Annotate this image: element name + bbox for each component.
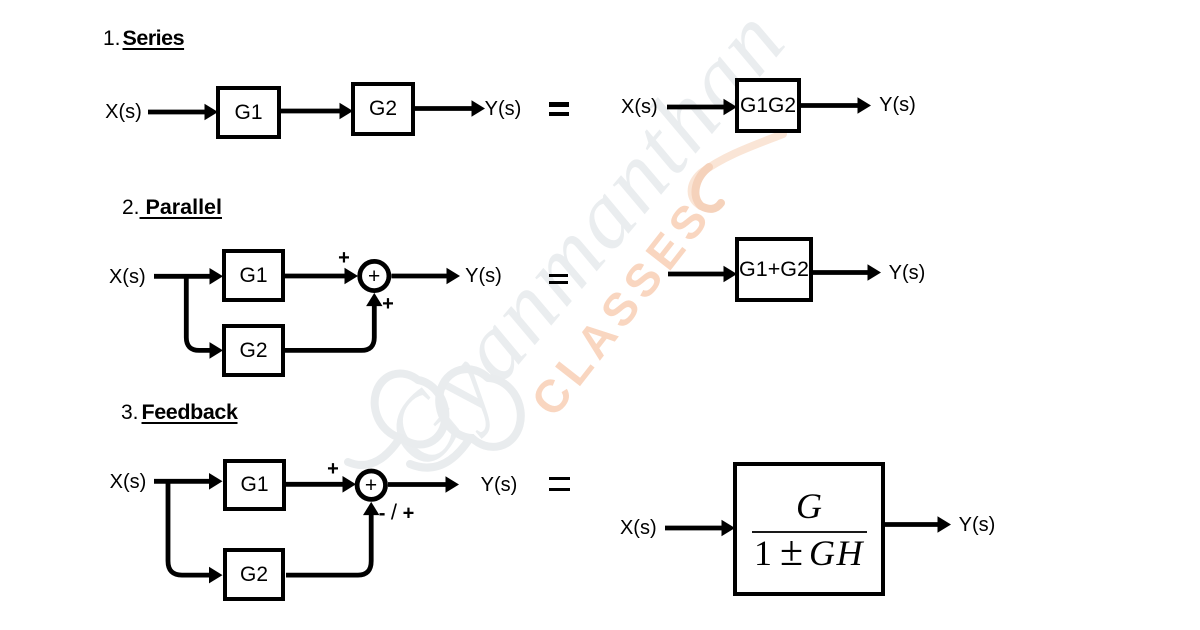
row1 arrowhead into G1 — [205, 104, 219, 121]
row1 block G1 — [216, 86, 281, 139]
watermark swoosh arc — [692, 134, 783, 206]
row3 block G1 — [223, 459, 286, 511]
row3 node label Y(s) — [481, 475, 518, 495]
row2 equals sign top bar — [549, 274, 568, 277]
row2 wire G1+G2 to Y(s) — [813, 270, 868, 275]
row1 equals sign bottom bar — [549, 112, 569, 116]
row1 right node label Y(s) — [879, 95, 916, 115]
row1 arrowhead into G1G2 — [724, 99, 738, 116]
row2 arrowhead into summing junction — [345, 268, 359, 285]
heading 1 Series — [103, 28, 184, 49]
row2 feed wire G2 to summing junction — [285, 306, 374, 350]
row2 arrowhead into G1+G2 — [724, 266, 738, 283]
watermark flourish loop 1 — [348, 373, 445, 465]
row2 arrowhead at Y(s) — [447, 268, 461, 285]
row3 wire G block to Y(s) — [885, 522, 938, 527]
row2 arrowhead into G1 — [210, 268, 224, 285]
row2 arrowhead at right Y(s) — [868, 264, 882, 281]
row2 wire X(s) to G1 — [154, 274, 210, 279]
row2 plus sign at lower summing input — [382, 294, 394, 314]
row3 equals sign top bar — [549, 477, 570, 480]
row1 node label X(s) — [105, 102, 142, 122]
row2 branch wire down to G2 — [186, 274, 210, 350]
row3 right node label X(s) — [620, 518, 657, 538]
row2 plus sign at summing input — [338, 248, 350, 268]
row1 arrowhead at right Y(s) — [858, 97, 872, 114]
heading 2 Parallel — [122, 197, 222, 218]
row2 node label Y(s) — [465, 266, 502, 286]
row3 wire summing junction to Y(s) — [388, 482, 446, 487]
row3 block G2 — [223, 548, 285, 601]
row3 transfer function block G over 1 plus-minus GH — [733, 462, 885, 596]
row1 arrowhead at Y(s) — [472, 100, 486, 117]
denominator 1 plus-minus GH — [754, 533, 864, 572]
row3 plus sign at summing input — [327, 459, 339, 479]
row3 node label X(s) — [110, 472, 147, 492]
row1 wire X(s) to G1 — [148, 110, 206, 115]
row3 summing junction circle — [357, 471, 385, 499]
row3 arrowhead at Y(s) — [446, 476, 460, 493]
row2 up arrowhead into summing junction — [366, 293, 382, 306]
row1 wire G1 to G2 — [280, 109, 340, 114]
row3 wire X(s) to G block — [665, 526, 722, 531]
row2 wire G1 to summing junction — [285, 274, 345, 279]
row2 summing junction circle — [360, 261, 389, 290]
watermark flourish loop 2 — [410, 369, 521, 468]
row3 arrowhead into G2 — [209, 567, 223, 584]
row1 wire G2 to Y(s) — [415, 106, 472, 111]
fraction bar — [752, 531, 867, 534]
row2 plus sign inside summing junction — [368, 267, 380, 287]
row3 arrowhead at right Y(s) — [938, 516, 952, 533]
row1 right node label X(s) — [621, 97, 658, 117]
row2 wire summing junction to Y(s) — [391, 274, 447, 279]
row2 node label X(s) — [109, 267, 146, 287]
watermark swoosh arc tail — [695, 167, 721, 209]
row3 branch wire down to G2 — [168, 479, 209, 575]
row2 block G1+G2 — [735, 237, 813, 302]
row2 block G1 — [222, 249, 285, 302]
row2 block G2 — [222, 324, 285, 377]
row3 up arrowhead into summing junction — [363, 502, 379, 515]
row2 wire into G1+G2 — [668, 272, 724, 277]
row3 feedback wire G2 to summing junction — [286, 515, 371, 575]
row1 arrowhead into G2 — [340, 103, 354, 120]
row1 block G2 — [351, 82, 415, 136]
row1 block G1G2 — [735, 78, 801, 133]
numerator G — [796, 491, 822, 522]
row1 equals sign top bar — [549, 102, 569, 107]
row3 minus-slash-plus label — [379, 502, 415, 523]
row2 arrowhead into G2 — [210, 342, 224, 359]
row3 arrowhead into G1 — [209, 473, 223, 490]
row3 arrowhead into G block — [722, 520, 736, 537]
row3 right node label Y(s) — [959, 515, 996, 535]
row3 wire G1 to summing junction — [286, 482, 344, 487]
row2 equals sign bottom bar — [549, 281, 568, 284]
row1 node label Y(s) — [485, 99, 522, 119]
row3 equals sign bottom bar — [549, 488, 570, 491]
row2 right node label Y(s) — [889, 263, 926, 283]
row1 wire G1G2 to Y(s) — [801, 103, 858, 108]
row3 plus sign inside summing junction — [365, 476, 377, 496]
row1 wire X(s) to G1G2 — [667, 105, 724, 110]
row3 arrowhead into summing junction — [343, 476, 357, 493]
heading 3 Feedback — [121, 402, 238, 423]
row3 wire X(s) to G1 — [154, 479, 209, 484]
